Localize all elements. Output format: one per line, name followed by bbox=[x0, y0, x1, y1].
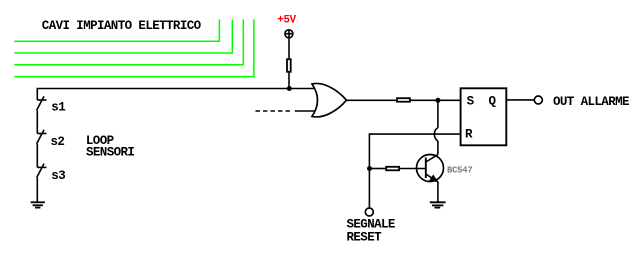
wire green cable 1 bbox=[14, 19, 219, 41]
svg-text:CAVI IMPIANTO ELETTRICO: CAVI IMPIANTO ELETTRICO bbox=[42, 19, 202, 33]
node junction S wire / transistor collector bbox=[435, 98, 440, 103]
wire Q output bbox=[506, 99, 534, 101]
node junction reset bbox=[367, 166, 372, 171]
wire s3 to ground bbox=[36, 178, 38, 203]
wire resistor to bus bbox=[288, 73, 290, 89]
wire reset node to base resistor bbox=[371, 168, 385, 170]
switch s3 bbox=[37, 164, 66, 183]
wire green cable 2 bbox=[14, 19, 232, 53]
node junction bus/pull-up bbox=[287, 86, 292, 91]
svg-text:s1: s1 bbox=[51, 101, 65, 115]
label SEGNALE RESET bbox=[347, 218, 395, 245]
wire +5V to resistor bbox=[288, 39, 290, 59]
switch s1 bbox=[37, 96, 66, 114]
wire emitter to ground bbox=[437, 182, 439, 202]
svg-text:s2: s2 bbox=[51, 135, 65, 149]
wire resistor to S pin bbox=[410, 99, 460, 101]
svg-text:Q: Q bbox=[489, 94, 497, 108]
resistor base (horizontal) bbox=[386, 167, 399, 171]
wire reset node to terminal bbox=[368, 169, 370, 208]
resistor series to S input bbox=[397, 98, 410, 102]
wire s2 to s3 bbox=[36, 144, 38, 168]
ground (sensor loop) bbox=[31, 202, 45, 207]
svg-text:RESET: RESET bbox=[347, 230, 383, 244]
svg-text:R: R bbox=[465, 128, 473, 142]
ground (emitter) bbox=[430, 202, 446, 207]
switch s2 bbox=[37, 130, 65, 149]
wire dashed other-sensors input bbox=[256, 110, 293, 112]
power +5V symbol bbox=[285, 30, 293, 38]
wire green cable 4 bbox=[14, 19, 254, 76]
wire s1 to s2 bbox=[36, 110, 38, 133]
flip-flop U1 (SR latch) bbox=[461, 88, 507, 145]
wire main sensor loop bus bbox=[37, 89, 315, 101]
transistor Q1 BC547 bbox=[417, 155, 473, 182]
OR gate bbox=[312, 83, 347, 116]
terminal OUT ALLARME bbox=[534, 96, 542, 104]
svg-text:s3: s3 bbox=[51, 169, 65, 183]
svg-text:BC547: BC547 bbox=[447, 166, 472, 176]
svg-text:SENSORI: SENSORI bbox=[86, 145, 134, 159]
resistor pull-up (vertical) bbox=[287, 59, 291, 72]
terminal SEGNALE RESET bbox=[365, 208, 373, 216]
svg-text:+5V: +5V bbox=[277, 14, 296, 26]
wire collector drop with hop over R wire bbox=[434, 102, 438, 155]
svg-text:S: S bbox=[467, 94, 475, 108]
svg-text:OUT ALLARME: OUT ALLARME bbox=[553, 95, 629, 109]
wire green cable 3 bbox=[14, 19, 243, 64]
wire R input to reset node bbox=[369, 134, 460, 166]
label LOOP SENSORI bbox=[86, 134, 135, 159]
wire resistor to base bbox=[399, 168, 425, 170]
wire gate output bbox=[347, 99, 397, 101]
wire lower gate input bbox=[295, 110, 316, 112]
